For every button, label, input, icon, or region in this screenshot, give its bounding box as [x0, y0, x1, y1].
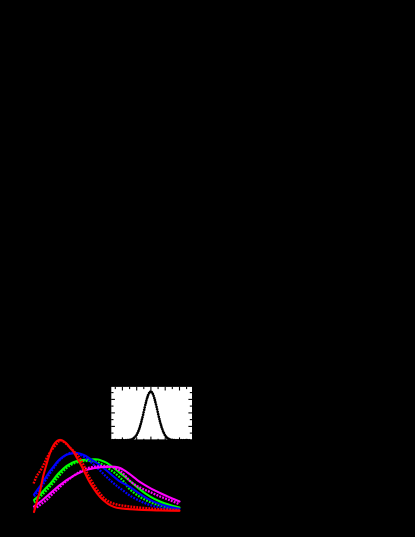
- inset gaussian curve: [111, 390, 191, 441]
- inset tick marks: [111, 387, 192, 441]
- inset x-axis baseline: [111, 439, 192, 441]
- curve green solid: [34, 459, 180, 507]
- inset panel background: [111, 387, 192, 441]
- curve red solid: [34, 440, 180, 512]
- curve blue dotted: [34, 452, 180, 510]
- curve green dotted: [34, 461, 180, 510]
- curve blue solid: [34, 453, 180, 509]
- curve magenta solid: [34, 467, 180, 507]
- curve magenta dotted: [34, 466, 180, 509]
- curve red dotted: [34, 440, 180, 510]
